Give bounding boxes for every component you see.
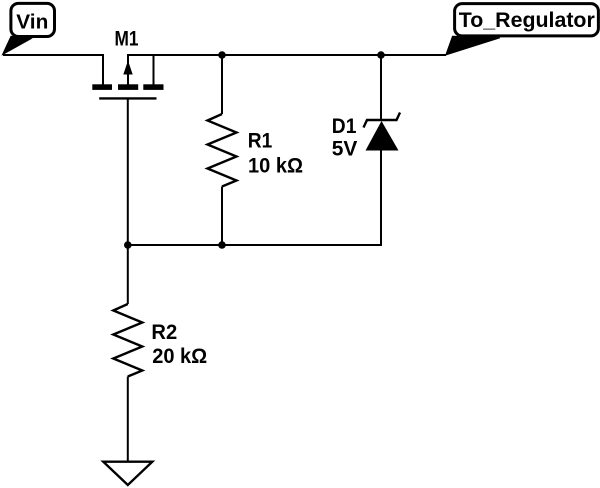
node junction D1 top xyxy=(377,51,385,59)
svg-text:M1: M1 xyxy=(115,26,139,50)
svg-text:10 kΩ: 10 kΩ xyxy=(248,153,303,177)
M1 body arrow xyxy=(123,61,132,75)
node junction R1 top xyxy=(218,51,226,59)
label R2 20 kOhm xyxy=(151,320,207,368)
zener diode D1 xyxy=(364,55,401,246)
node junction R1 bottom xyxy=(218,241,226,249)
node junction gate / bottom rail xyxy=(124,241,132,249)
transistor M1 (P-MOSFET) xyxy=(92,55,163,98)
net flag To_Regulator xyxy=(446,4,599,55)
D1 anode triangle xyxy=(366,121,399,151)
resistor R2 xyxy=(113,245,142,461)
label D1 5V xyxy=(332,114,358,161)
M1 right bar xyxy=(143,84,163,90)
ground xyxy=(103,462,152,485)
M1 gate plate xyxy=(99,97,156,99)
svg-text:D1: D1 xyxy=(332,114,357,138)
D1 top lead xyxy=(380,55,382,120)
svg-text:5V: 5V xyxy=(332,137,358,161)
svg-text:R1: R1 xyxy=(248,129,273,153)
D1 cathode zener bar xyxy=(364,113,401,128)
label R1 10 kOhm xyxy=(248,129,303,178)
wire bottom rail xyxy=(127,244,382,246)
M1 middle bar xyxy=(118,84,138,90)
wire M1 gate drop xyxy=(127,99,129,245)
svg-text:To_Regulator: To_Regulator xyxy=(459,9,595,32)
M1 left bar xyxy=(92,84,112,90)
wire top rail right (M1 to To_Regulator) xyxy=(128,55,446,85)
M1 drain lead xyxy=(153,55,155,85)
svg-text:20 kΩ: 20 kΩ xyxy=(152,344,207,368)
net flag Vin xyxy=(3,3,55,54)
svg-text:R2: R2 xyxy=(151,320,177,344)
wire top rail left (Vin to M1 source) xyxy=(3,55,103,85)
D1 bottom lead xyxy=(380,151,382,247)
svg-text:Vin: Vin xyxy=(16,12,48,34)
resistor R1 xyxy=(208,55,237,245)
